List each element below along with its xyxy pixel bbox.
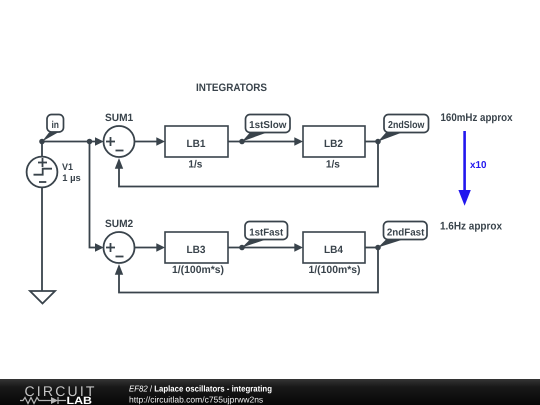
svg-text:SUM2: SUM2 [105,218,133,230]
svg-text:1stSlow: 1stSlow [249,120,287,131]
CircuitLab logo [20,383,97,405]
wire: node A to SUM1 input [42,141,96,143]
net flag 1stSlow [242,115,290,142]
svg-text:LB2: LB2 [324,138,343,150]
arrowhead into SUM1 [95,137,104,145]
block LB4 [303,232,365,276]
wire: LB3 to LB4 [228,247,295,249]
svg-text:1.6Hz approx: 1.6Hz approx [440,221,503,233]
svg-text:1/s: 1/s [326,158,340,170]
svg-text:INTEGRATORS: INTEGRATORS [196,82,267,94]
node dot 2ndSlow [375,139,381,145]
net flag 2ndSlow [378,115,429,142]
net flag 2ndFast [378,222,427,248]
wire: SUM1 to LB1 [135,141,158,143]
arrowhead into SUM2 [95,243,104,251]
block LB1 [165,126,228,170]
node dot 1stSlow [239,139,245,145]
wire: LB1 to LB2 [228,141,295,143]
svg-text:1stFast: 1stFast [249,227,284,238]
arrowhead into LB4 [294,243,303,251]
summing junction SUM1 [104,112,135,157]
summing junction SUM2 [104,218,135,263]
svg-text:1/(100m*s): 1/(100m*s) [172,264,224,276]
arrowhead into LB2 [294,137,303,145]
block LB2 [303,126,365,170]
node A dot [39,139,45,145]
svg-text:http://circuitlab.com/c755ujpr: http://circuitlab.com/c755ujprww2ns [129,395,263,405]
node dot 1stFast [239,245,245,251]
svg-text:LB1: LB1 [187,138,206,150]
svg-text:LB3: LB3 [187,244,206,256]
svg-text:1/(100m*s): 1/(100m*s) [309,264,361,276]
wire: feedback loop 2 [119,248,378,293]
svg-text:SUM1: SUM1 [105,112,133,124]
wire: feedback loop 1 [119,142,378,187]
svg-text:EF82 / Laplace oscillators - i: EF82 / Laplace oscillators - integrating [129,384,272,394]
svg-text:V1: V1 [62,162,74,173]
net flag 1stFast [242,222,288,248]
arrowhead into LB3 [156,243,165,251]
svg-text:x10: x10 [470,160,487,171]
junction dot [87,139,93,145]
svg-text:LB4: LB4 [324,244,343,256]
svg-text:in: in [51,120,59,131]
svg-text:2ndSlow: 2ndSlow [388,120,424,131]
svg-text:LAB: LAB [67,395,93,405]
svg-text:160mHz approx: 160mHz approx [441,112,514,124]
svg-text:1 µs: 1 µs [62,173,81,184]
node dot 2ndFast [375,245,381,251]
arrowhead into SUM1 bottom [115,158,123,169]
arrowhead into SUM2 bottom [115,264,123,275]
ground [30,291,55,304]
svg-text:1/s: 1/s [188,158,202,170]
block LB3 [165,232,228,276]
wire: LB4 output to node [365,247,378,249]
arrowhead into LB1 [156,137,165,145]
svg-text:2ndFast: 2ndFast [387,227,425,238]
annotation blue arrow x10 [458,131,487,206]
net flag in [42,115,64,142]
wire: SUM2 to LB3 [135,247,158,249]
voltage source V1 [27,142,81,292]
wire: LB2 output to node [365,141,378,143]
wire: junction down to SUM2 input [90,142,97,248]
